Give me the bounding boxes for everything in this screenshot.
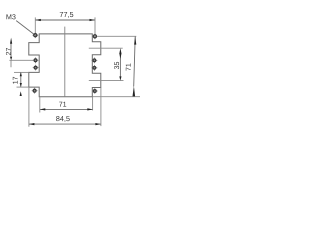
bottom dimension 71 left extension line: [39, 97, 41, 113]
label 27 rotated: [6, 48, 11, 55]
label 17 rotated: [13, 77, 18, 84]
label 71 bottom: [59, 102, 66, 107]
dimension 84,5 line: [29, 123, 101, 125]
vertical centerline: [64, 27, 66, 97]
label 77,5: [60, 12, 74, 18]
dimension 17 bottom extension line: [17, 86, 29, 88]
bottom dimension 71 right arrowhead: [87, 108, 93, 110]
right dimension 71 line: [134, 36, 136, 86]
hole right middle upper centre cross: [92, 58, 98, 64]
dimension 77,5 right arrowhead: [90, 19, 96, 21]
screw hole top-right M3 centre cross: [92, 33, 98, 39]
hole left middle lower circle: [34, 66, 37, 69]
hole right middle lower circle: [93, 66, 96, 69]
dimension 84,5 left extension line: [28, 88, 30, 127]
dimension 27 bottom extension line: [9, 59, 33, 61]
M3 leader line: [16, 21, 36, 36]
hole bottom-right circle: [93, 90, 96, 93]
dimension 35 upper spindle arrowhead down: [119, 53, 121, 59]
label M3: [6, 14, 15, 19]
dimension 17 bottom arrowhead: [20, 83, 22, 87]
label 84,5: [56, 116, 70, 122]
dimension 17 lower wedge mark: [20, 91, 22, 96]
bottom dimension 71 right extension line: [92, 97, 94, 111]
dimension 35 bottom extension line: [89, 80, 124, 82]
hole left middle lower centre cross: [33, 65, 39, 71]
bottom dimension 71 line: [40, 108, 93, 110]
dimension 17 top arrowhead: [20, 72, 22, 76]
label 71 rotated: [126, 64, 131, 71]
dimension 77,5 left arrowhead: [35, 19, 41, 21]
dimension 84,5 right extension line: [100, 88, 102, 127]
right dimension 71 top spike arrowhead: [134, 36, 136, 44]
label 35 rotated: [114, 62, 119, 69]
dimension 84,5 left arrowhead: [29, 123, 35, 125]
dimension 27 line: [10, 44, 12, 57]
hole bottom-left circle: [33, 89, 36, 92]
device body outline with mounting flanges: [29, 34, 101, 97]
screw hole top-left M3 circle: [34, 34, 37, 37]
dimension 84,5 right arrowhead: [95, 123, 101, 125]
right dimension 71 top extension line: [98, 35, 137, 37]
dimension 77,5 left extension line: [34, 17, 36, 33]
hole bottom-right centre cross: [92, 88, 98, 94]
dimension 35 upper spindle arrowhead up: [119, 48, 121, 54]
hole bottom-left centre cross: [32, 88, 38, 94]
dimension 77,5 line: [35, 19, 95, 21]
bottom dimension 71 left arrowhead: [40, 108, 46, 110]
hole left middle upper circle: [34, 59, 37, 62]
dimension 35 bottom arrowhead: [119, 76, 121, 80]
dimension 27 line lower tail: [10, 60, 12, 67]
screw hole top-right M3 circle: [93, 35, 96, 38]
screw hole top-left M3 centre cross: [32, 32, 38, 38]
dimension 77,5 right extension line: [94, 17, 96, 34]
dimension 17 line: [20, 72, 22, 87]
hole right middle lower centre cross: [92, 65, 98, 71]
hole right middle upper circle: [93, 59, 96, 62]
dimension 27 bottom arrowhead: [10, 57, 12, 61]
right dimension 71 bottom wedge arrowhead: [133, 86, 136, 96]
hole left middle upper centre cross: [33, 57, 39, 63]
dimension 35 line: [119, 52, 121, 77]
right dimension 71 bottom extension line: [92, 96, 140, 98]
dimension 17 top extension line: [14, 71, 29, 73]
dimension 27 top spike arrowhead: [10, 38, 12, 44]
dimension 35 top extension line: [89, 47, 123, 49]
